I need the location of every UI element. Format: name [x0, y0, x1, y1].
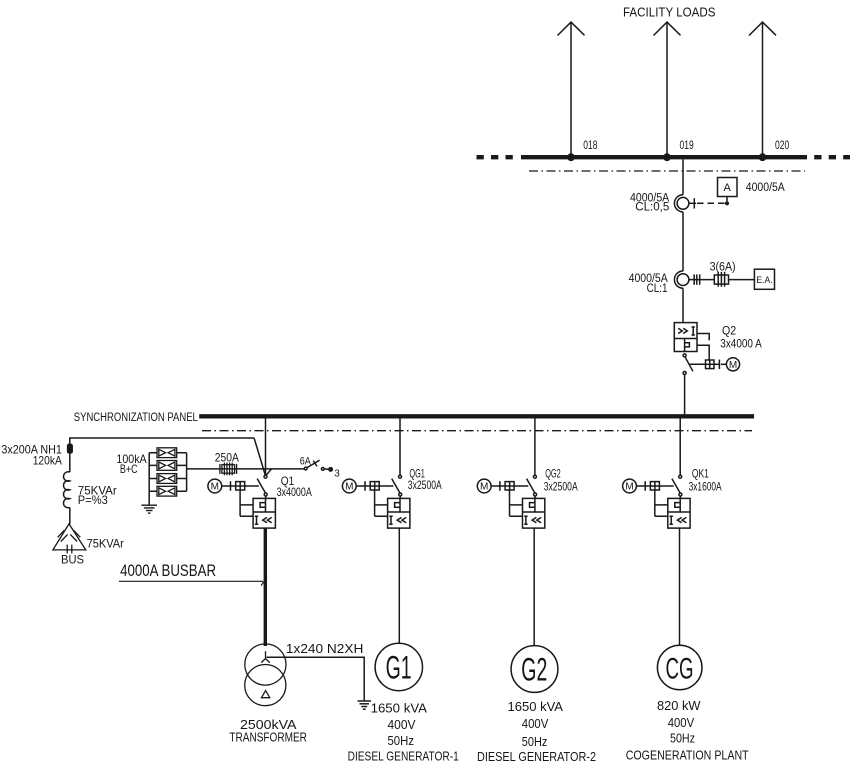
- wire CT1 secondary stub with terminal tick: [689, 198, 696, 208]
- wire to energy analyzer: [729, 279, 755, 281]
- node 019 junction: [663, 153, 671, 161]
- svg-text:75KVAr: 75KVAr: [87, 536, 124, 550]
- reactor coil 75KVAr P=%3: [64, 472, 70, 508]
- node 018 junction: [567, 153, 575, 161]
- wire SPD right bus: [177, 453, 187, 492]
- svg-text:50Hz: 50Hz: [670, 730, 695, 745]
- svg-text:FACILITY LOADS: FACILITY LOADS: [623, 4, 716, 19]
- energy analyzer E.A.: [754, 269, 774, 289]
- svg-text:TRANSFORMER: TRANSFORMER: [229, 730, 307, 744]
- svg-text:4000/5A: 4000/5A: [746, 182, 785, 194]
- wire outgoing feeder 020: [762, 23, 764, 156]
- wire busbar drop to Q1: [265, 418, 267, 475]
- svg-text:1x240 N2XH: 1x240 N2XH: [286, 641, 364, 656]
- generator G1: [375, 643, 422, 690]
- svg-text:COGENERATION PLANT: COGENERATION PLANT: [626, 747, 749, 762]
- svg-text:120kA: 120kA: [33, 453, 62, 467]
- svg-text:019: 019: [680, 140, 694, 152]
- svg-text:3x4000A: 3x4000A: [277, 485, 312, 499]
- svg-text:50Hz: 50Hz: [388, 733, 415, 748]
- breaker QG1 3x2500A with motor drive M: [342, 475, 410, 528]
- wire Q2 to synchronization busbar: [684, 375, 686, 415]
- fuse 250A (with terminal ticks): [220, 463, 237, 476]
- fuse NH1 3x200A: [68, 444, 73, 453]
- generator G2: [511, 646, 558, 693]
- breaker QG2 3x2500A with motor drive M: [477, 475, 545, 528]
- wire Q2 auxiliary stubs to motor drive: [697, 334, 709, 361]
- breaker Q1 3x4000A with motor drive M: [208, 475, 276, 528]
- svg-text:Q2: Q2: [722, 324, 736, 338]
- isolator 6A contact: [304, 467, 307, 470]
- current transformer CT2 4000/5A CL:1: [674, 271, 689, 288]
- wire reactor to capacitor bank: [69, 508, 71, 525]
- wire incomer from busbar to CT1: [682, 159, 684, 195]
- svg-text:3: 3: [334, 468, 340, 479]
- panel boundary dash-dot line (synchronization): [202, 430, 752, 432]
- svg-text:3x4000 A: 3x4000 A: [720, 337, 762, 351]
- svg-text:020: 020: [775, 140, 789, 152]
- surge arrester SPD-1: [157, 448, 177, 458]
- wire socket link (6A): [324, 468, 328, 470]
- wire diagonal wire-to-contact (Q1): [266, 469, 271, 475]
- wire busbar drop to QK1: [679, 418, 681, 475]
- node socket filled (6A): [328, 467, 333, 472]
- wire SPD bus to Q1 via 250A fuse: [187, 468, 305, 470]
- svg-text:400V: 400V: [668, 715, 695, 730]
- wire outgoing feeder 019: [666, 23, 668, 156]
- svg-text:G1: G1: [386, 650, 412, 686]
- ground (transformer neutral): [358, 701, 372, 709]
- svg-text:BUS: BUS: [61, 552, 84, 566]
- svg-text:DIESEL GENERATOR-1: DIESEL GENERATOR-1: [348, 749, 459, 764]
- svg-text:4000A BUSBAR: 4000A BUSBAR: [120, 561, 216, 580]
- wire CT1 to CT2: [682, 212, 684, 271]
- contact socket (6A): [321, 468, 324, 471]
- wire Q2 motor drive: [689, 363, 706, 365]
- arrowhead feeder 019: [654, 22, 681, 35]
- svg-text:400V: 400V: [522, 716, 549, 731]
- arrowhead feeder 020: [749, 22, 776, 35]
- svg-text:1650 kVA: 1650 kVA: [371, 701, 428, 716]
- wire dashed to ammeter: [697, 202, 725, 204]
- generator CG (cogeneration): [657, 645, 702, 690]
- wire SPD left bus to ground: [149, 453, 157, 506]
- wire tap to ammeter box: [726, 197, 728, 202]
- busbar riser 4000A (thick): [264, 528, 267, 646]
- busbar continuation dashes right: [814, 155, 850, 159]
- busbar facility distribution (main): [521, 155, 807, 159]
- svg-text:SYNCHRONIZATION PANEL: SYNCHRONIZATION PANEL: [74, 412, 198, 424]
- svg-text:QK1: QK1: [692, 466, 709, 480]
- svg-text:3x2500A: 3x2500A: [408, 478, 442, 492]
- wire diagonal into Q1 upper contact: [254, 438, 265, 475]
- svg-text:3x2500A: 3x2500A: [544, 480, 578, 494]
- svg-text:400V: 400V: [388, 717, 416, 732]
- isolator 6A blade with tick: [307, 460, 320, 467]
- wire QK1 to cogeneration plant: [679, 528, 681, 645]
- svg-text:CL:1: CL:1: [647, 283, 668, 295]
- panel boundary dash-dot line (top): [529, 170, 805, 172]
- wire fuse to reactor: [69, 453, 71, 472]
- wire CT2 to breaker Q2: [682, 288, 684, 322]
- leader line 4000A BUSBAR: [119, 577, 267, 585]
- svg-text:1650 kVA: 1650 kVA: [508, 699, 564, 714]
- svg-text:G2: G2: [521, 652, 547, 688]
- svg-text:DIESEL GENERATOR-2: DIESEL GENERATOR-2: [477, 749, 596, 764]
- transformer T 2500kVA (two windings): [245, 644, 286, 706]
- svg-text:018: 018: [583, 140, 597, 152]
- wire left feeder top (fuse to Q1): [70, 438, 254, 445]
- surge arrester SPD-3: [157, 474, 177, 484]
- svg-text:250A: 250A: [215, 451, 239, 465]
- svg-text:3(6A): 3(6A): [710, 262, 736, 274]
- svg-text:B+C: B+C: [120, 462, 138, 476]
- node ammeter tap: [725, 201, 729, 205]
- wire busbar drop to QG1: [399, 418, 401, 475]
- wire outgoing feeder 018: [570, 23, 572, 156]
- svg-text:A: A: [724, 182, 732, 194]
- arrowhead feeder 018: [558, 22, 585, 35]
- svg-text:CL:0,5: CL:0,5: [635, 201, 669, 213]
- breaker QK1 3x1600A with motor drive M: [623, 475, 691, 528]
- svg-text:3x1600A: 3x1600A: [689, 479, 722, 493]
- busbar continuation dashes left: [477, 155, 515, 159]
- wire busbar drop to QG2: [534, 418, 536, 475]
- svg-text:820 kW: 820 kW: [657, 698, 701, 713]
- svg-text:50Hz: 50Hz: [522, 734, 548, 749]
- busbar synchronization panel: [199, 414, 754, 418]
- breaker Q2 3x4000A (drawout ACB with protection unit): [674, 323, 697, 352]
- capacitor bank delta 75KVAr: [53, 524, 86, 554]
- node 020 junction: [759, 153, 767, 161]
- current transformer CT1 4000/5A CL:0,5: [674, 195, 688, 212]
- svg-text:E.A.: E.A.: [756, 275, 773, 286]
- svg-text:M: M: [729, 360, 737, 371]
- wire CT2 secondary with three terminal ticks: [689, 274, 714, 284]
- wire QG1 to generator G1: [398, 528, 400, 643]
- surge arrester SPD-4: [157, 486, 177, 496]
- wire QG2 to generator G2: [533, 528, 535, 646]
- test terminal block 3(6A): [714, 272, 728, 287]
- contact Q2 upper: [683, 354, 686, 357]
- ground (SPD): [141, 505, 157, 513]
- ammeter A: [718, 178, 738, 197]
- svg-text:CG: CG: [666, 653, 694, 686]
- svg-text:P=%3: P=%3: [78, 493, 108, 507]
- wire transformer neutral to ground: [267, 657, 365, 701]
- motor drive unit box (Q2): [706, 360, 727, 369]
- switch blade Q2: [685, 357, 693, 372]
- motor M (Q2): [726, 358, 739, 371]
- surge arrester SPD-2: [157, 461, 177, 471]
- contact Q2 lower: [683, 372, 686, 375]
